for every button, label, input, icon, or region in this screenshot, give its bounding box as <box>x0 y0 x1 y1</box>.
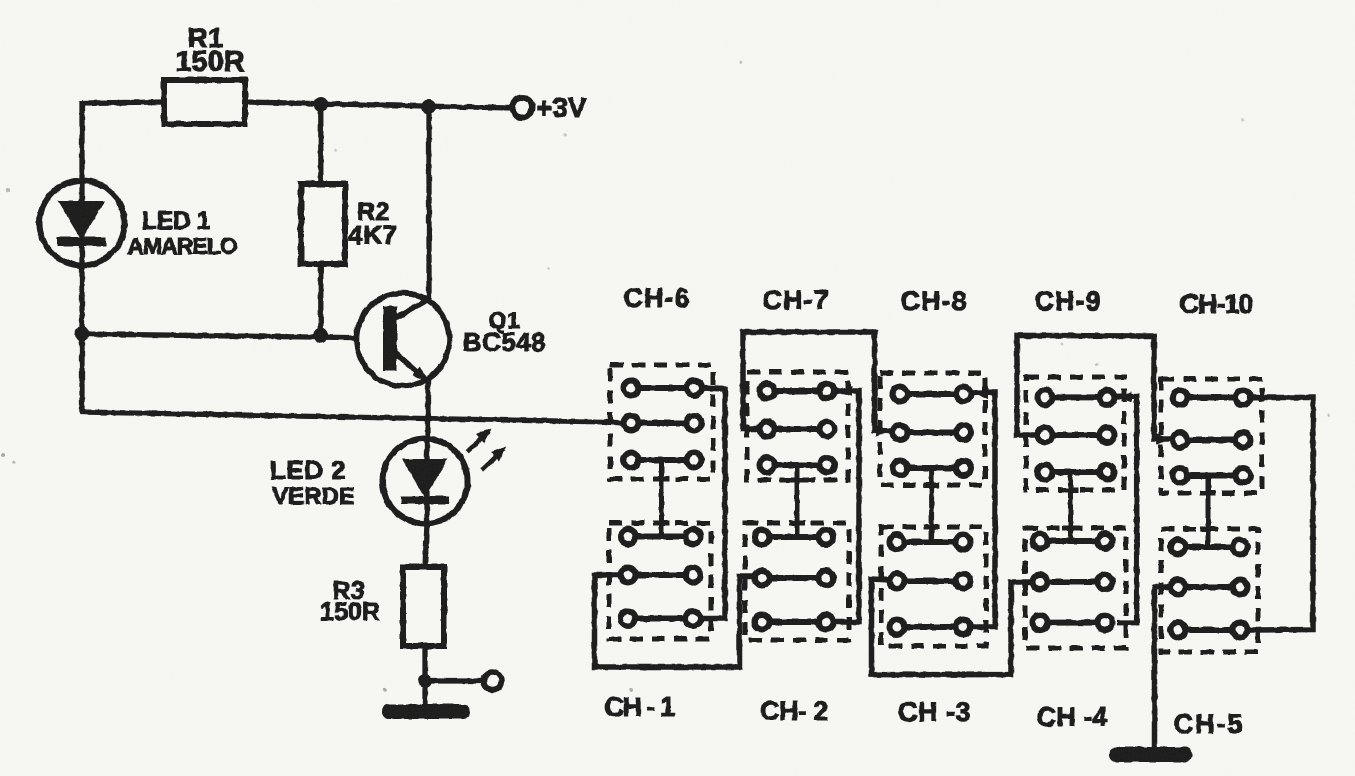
svg-text:CH -3: CH -3 <box>898 697 971 727</box>
svg-text:150R: 150R <box>320 598 380 626</box>
svg-text:CH-5: CH-5 <box>1173 709 1244 739</box>
svg-text:150R: 150R <box>175 46 244 78</box>
svg-text:CH-10: CH-10 <box>1179 289 1252 319</box>
svg-text:CH - 1: CH - 1 <box>604 692 674 722</box>
svg-text:CH- 2: CH- 2 <box>760 696 828 726</box>
svg-text:LED 2: LED 2 <box>270 455 346 485</box>
svg-text:CH -4: CH -4 <box>1037 702 1108 732</box>
svg-text:CH-8: CH-8 <box>900 286 967 316</box>
svg-text:4K7: 4K7 <box>348 220 397 250</box>
svg-text:CH-9: CH-9 <box>1034 286 1101 316</box>
svg-text:AMARELO: AMARELO <box>127 233 236 259</box>
svg-text:VERDE: VERDE <box>272 483 355 510</box>
svg-text:BC548: BC548 <box>463 327 546 357</box>
svg-text:CH-7: CH-7 <box>762 285 829 315</box>
svg-text:+3V: +3V <box>536 92 587 123</box>
svg-text:CH-6: CH-6 <box>623 283 690 313</box>
svg-text:LED 1: LED 1 <box>142 207 211 235</box>
